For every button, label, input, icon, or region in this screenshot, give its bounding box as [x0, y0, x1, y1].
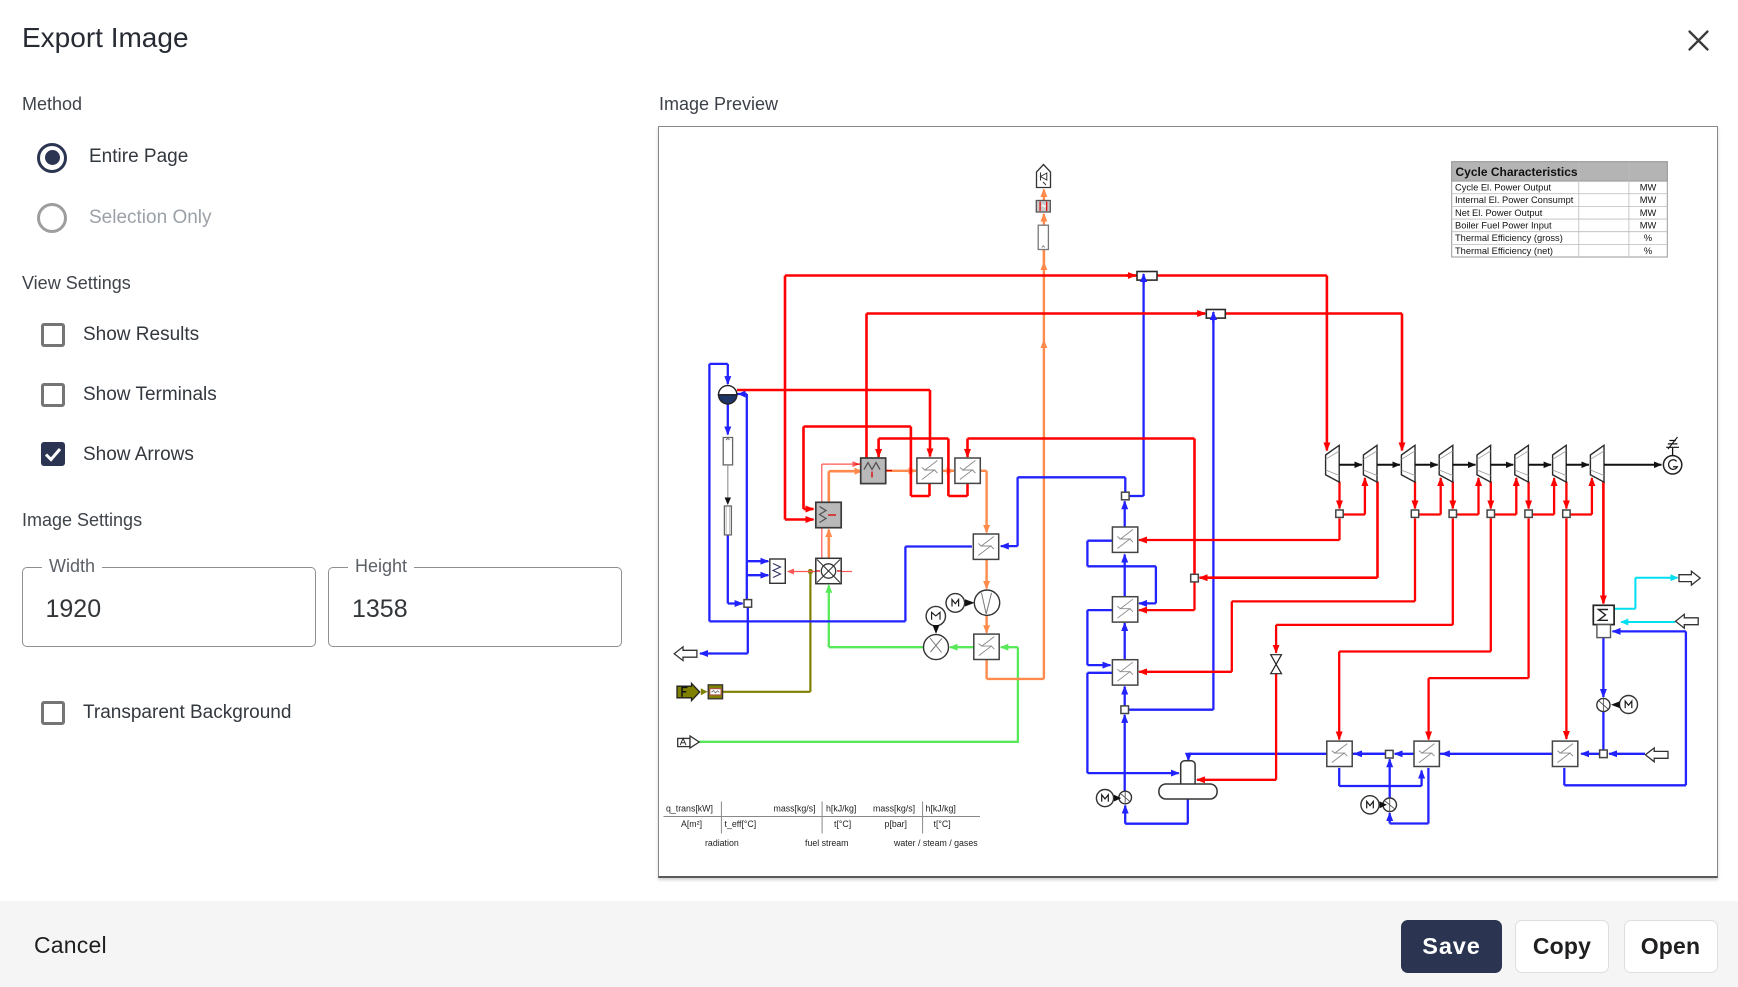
- Method section: [22, 94, 82, 115]
- LP heater LPH3: [1552, 741, 1577, 766]
- svg-text:MW: MW: [1640, 195, 1657, 205]
- wire FWH2 drain blue: [1087, 608, 1112, 610]
- wire drum steam red: [737, 388, 930, 391]
- svg-text:mass[kg/s]: mass[kg/s]: [774, 803, 816, 813]
- close X icon: [1687, 29, 1710, 52]
- wire extraction red to deaerator via valve: [1452, 481, 1454, 508]
- wire downcomer blue: [727, 404, 729, 434]
- condenser sigma box: [1593, 605, 1614, 624]
- junction node cold-reheat: [1191, 574, 1199, 582]
- wire extraction red to FWH3: [1414, 481, 1416, 508]
- Image Settings: [22, 510, 142, 531]
- wire reheater-2 outlet red to superheater: [966, 483, 969, 496]
- svg-text:Thermal Efficiency (gross): Thermal Efficiency (gross): [1455, 233, 1563, 243]
- steam turbine stages T1-T8: [1326, 445, 1340, 482]
- wire main steam red line-2 (hot reheat): [865, 313, 868, 457]
- svg-text:t_eff[°C]: t_eff[°C]: [725, 819, 757, 829]
- wire flue-gas orange stack top: [1043, 214, 1045, 225]
- svg-text:mass[kg/s]: mass[kg/s]: [873, 803, 915, 813]
- svg-text:MW: MW: [1640, 182, 1657, 192]
- svg-text:h[kJ/kg]: h[kJ/kg]: [826, 803, 856, 813]
- svg-text:t[°C]: t[°C]: [834, 819, 851, 829]
- DIAGRAM SVG: [659, 128, 1717, 877]
- radio Entire Page (selected): [37, 143, 67, 173]
- wire condensate main blue: [1187, 753, 1189, 760]
- Image Preview label: [659, 94, 778, 115]
- junction node drum-circuit: [744, 599, 752, 607]
- wire reheater-1 outlet red loop: [928, 483, 931, 496]
- reheater R2: [955, 458, 980, 483]
- wire radiation link pink: [788, 570, 822, 572]
- svg-text:radiation: radiation: [705, 838, 739, 848]
- cooling water outlet arrow: [1679, 571, 1700, 585]
- checkbox Show Results: [41, 323, 65, 347]
- deaerator feedwater tank: [1181, 760, 1195, 787]
- wire main steam red line-1: [785, 274, 1327, 277]
- preview frame: [658, 126, 1719, 878]
- air blower with sigma drive: [926, 606, 945, 625]
- steam drum: [719, 385, 737, 394]
- wire air green: [699, 740, 1018, 742]
- wire LPH3 drain blue to condenser: [1563, 767, 1565, 784]
- svg-text:MW: MW: [1640, 207, 1657, 217]
- extraction control valve: [1271, 654, 1282, 664]
- stack silencer: [1036, 200, 1050, 212]
- condenser hotwell box: [1597, 624, 1611, 637]
- wire hot-gas orange boiler: [827, 529, 830, 558]
- turbine shaft black: [1339, 463, 1362, 465]
- svg-text:Thermal Efficiency (net): Thermal Efficiency (net): [1455, 245, 1553, 255]
- wire extraction red to LPH1: [1490, 481, 1492, 508]
- svg-text:Net El. Power Output: Net El. Power Output: [1455, 207, 1543, 217]
- LP heater LPH2: [1414, 741, 1439, 766]
- title: [22, 24, 189, 52]
- svg-text:MW: MW: [1640, 220, 1657, 230]
- wire cooling-water-in cyan: [1621, 621, 1675, 623]
- downcomer link grey: [727, 464, 729, 497]
- junction node condensate LP: [1386, 750, 1394, 758]
- boiler evaporator grey box: [816, 502, 841, 527]
- wire condenser outlet blue: [1602, 637, 1604, 697]
- condensate pump with motor: [1597, 698, 1610, 711]
- boiler feed pump with motor: [1119, 791, 1132, 804]
- svg-text:Cycle El. Power Output: Cycle El. Power Output: [1455, 182, 1552, 192]
- svg-text:fuel stream: fuel stream: [805, 838, 849, 848]
- reheater R1: [917, 458, 942, 483]
- feedwater heater FWH1: [1112, 527, 1137, 552]
- fuel source F arrow: [677, 683, 700, 700]
- economizer: [973, 534, 998, 559]
- drain pump with motor: [1383, 798, 1397, 812]
- checkbox Show Arrows (checked): [41, 442, 65, 466]
- svg-text:Cycle Characteristics: Cycle Characteristics: [1456, 164, 1578, 178]
- wire economizer blue inlet: [1001, 544, 1018, 546]
- checkbox Transparent Background: [41, 701, 65, 725]
- air preheater: [974, 634, 999, 659]
- attemperator-2 on hot reheat line: [1206, 309, 1225, 318]
- wire fuel olive: [723, 690, 811, 692]
- wire FWH1 drain blue: [1087, 539, 1112, 541]
- junction node feedwater top: [1122, 492, 1130, 500]
- wire turbine-2 exhaust red: [1376, 481, 1379, 577]
- wire extraction red to LPH3: [1565, 481, 1567, 508]
- burner mixer box: [816, 558, 841, 583]
- svg-text:water / steam / gases: water / steam / gases: [893, 838, 978, 848]
- View Settings: [22, 273, 131, 294]
- cooling water inlet arrow: [1676, 614, 1699, 628]
- wire extraction red to LPH2: [1527, 481, 1529, 508]
- Height field: [328, 567, 622, 647]
- svg-text:p[bar]: p[bar]: [885, 819, 908, 829]
- LP heater LPH1: [1327, 741, 1352, 766]
- wire FWH3 drain blue: [1087, 671, 1112, 673]
- makeup water inlet arrow: [1645, 747, 1668, 761]
- wire flue-gas orange: [980, 469, 986, 471]
- riser tube lower: [724, 506, 731, 535]
- svg-text:q_trans[kW]: q_trans[kW]: [666, 803, 713, 813]
- wire spray blue arrow overlays on attemperators: [1142, 274, 1144, 285]
- flue gas stack: [1037, 164, 1051, 187]
- wire extraction red to FWH1: [1338, 481, 1340, 508]
- wire extraction red to FWH2: [1193, 581, 1195, 610]
- blowdown outlet arrow: [674, 646, 697, 660]
- wire deaerator outlet blue to feed pump: [1187, 799, 1189, 824]
- wire feedwater blue drum-inlet: [905, 545, 972, 547]
- wire LPH2 drain blue to drain pump: [1427, 767, 1429, 823]
- svg-text:%: %: [1644, 233, 1652, 243]
- wire turbine crossovers red: [1343, 513, 1365, 515]
- wire LPH1 drain blue: [1338, 767, 1340, 785]
- stack duct: [1038, 225, 1048, 249]
- wire blowdown blue out: [747, 607, 749, 653]
- wire cold reheat red: [1193, 438, 1196, 574]
- wire cooling-water-out cyan: [1614, 607, 1635, 609]
- blowdown cooler: [770, 559, 786, 583]
- wire turbine-8 exhaust red to condenser: [1602, 481, 1605, 603]
- fuel filter: [708, 684, 722, 698]
- wire spray-water blue to attemperator-2: [1129, 708, 1213, 710]
- boiler superheater SH1 grey box: [861, 458, 886, 484]
- attemperator-1 on main steam line: [1137, 271, 1157, 280]
- cycle characteristics table: [1452, 161, 1668, 256]
- feedwater heater FWH2: [1112, 596, 1137, 621]
- downcomer tube upper: [723, 437, 732, 464]
- fan with motor: [974, 590, 999, 615]
- air source A arrow: [678, 738, 690, 746]
- junction node feedwater bottom: [1121, 705, 1129, 713]
- Width field: [22, 567, 316, 647]
- svg-text:h[kJ/kg]: h[kJ/kg]: [926, 803, 956, 813]
- wire feedwater blue FWH column: [1124, 714, 1126, 790]
- extraction junction nodes: [1336, 510, 1343, 517]
- svg-text:%: %: [1644, 245, 1652, 255]
- radio Selection Only (disabled): [37, 203, 67, 233]
- checkbox Show Terminals: [41, 383, 65, 407]
- wire spray-water blue to attemperator-1: [1129, 494, 1144, 496]
- svg-text:Boiler Fuel Power Input: Boiler Fuel Power Input: [1455, 220, 1552, 230]
- wire drum riser blue: [737, 392, 747, 394]
- feedwater heater FWH3: [1112, 659, 1137, 684]
- footer bar: [0, 901, 1738, 987]
- svg-text:A[m²]: A[m²]: [681, 819, 702, 829]
- svg-text:t[°C]: t[°C]: [934, 819, 951, 829]
- svg-text:Internal El. Power Consumpt: Internal El. Power Consumpt: [1455, 195, 1574, 205]
- junction node condensate makeup: [1600, 750, 1608, 758]
- generator G: [1663, 455, 1681, 473]
